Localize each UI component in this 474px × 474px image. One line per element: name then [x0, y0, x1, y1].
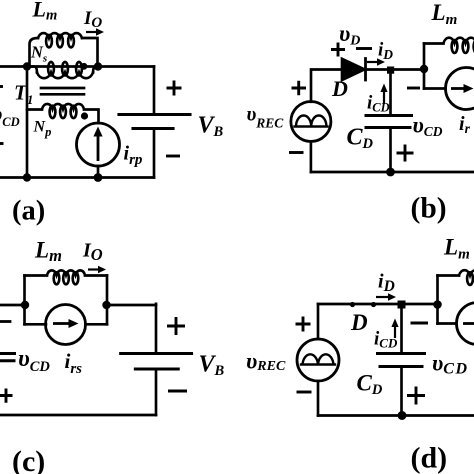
svg-text:D: D	[350, 310, 368, 335]
wire top rail a	[0, 65, 154, 68]
top rail d	[318, 303, 438, 306]
capacitor CD (d) top lead	[400, 305, 403, 354]
minus vREC (d)	[297, 391, 312, 394]
polarity dot Ns (a)	[81, 63, 88, 70]
minus vD (b)	[356, 47, 372, 50]
node dot c2	[102, 301, 110, 309]
current source circle (d)	[457, 303, 474, 345]
arrow iD (d)	[376, 296, 389, 298]
bottom rail b	[311, 171, 474, 174]
battery VB (a) bottom plate	[133, 127, 173, 130]
plus vREC (b)	[292, 81, 307, 96]
capacitor CD (d) bottom lead	[400, 367, 403, 416]
node square dot d3	[398, 301, 406, 309]
battery VB (c) bottom terminal	[155, 369, 158, 415]
plus cropped left (a)	[0, 85, 3, 88]
wire node vertical (b)	[423, 44, 426, 89]
rectified waveform inside vREC (b)	[295, 115, 328, 126]
source vREC circle (d)	[297, 339, 339, 381]
node vertical (d)	[436, 276, 439, 324]
capacitor CD (b) bottom plate	[366, 126, 410, 129]
transformer core T1	[41, 87, 84, 90]
plus cropped left (c)	[0, 389, 13, 403]
arrow in source (a)	[97, 134, 100, 161]
diode terminal dot d2	[371, 302, 376, 307]
inductor Lm loop (a)	[30, 38, 39, 67]
inductor Lm (c)	[25, 274, 48, 277]
arrow in source (c)	[53, 322, 69, 325]
svg-text:(c): (c)	[12, 445, 45, 474]
wire top left vertical b	[311, 70, 342, 102]
minus cap top (b)	[407, 87, 420, 90]
capacitor CD (b) top lead	[389, 70, 392, 116]
rectified waveform inside vREC (d)	[301, 354, 335, 364]
capacitor plates cropped left edge (c)	[0, 352, 15, 355]
capacitor CD (d) bottom plate	[380, 365, 422, 368]
inductor Lm branch (b)	[424, 42, 444, 45]
minus cap top (d)	[411, 322, 429, 325]
left vertical d	[317, 304, 320, 339]
winding Ns (a)	[27, 67, 37, 73]
wire vREC to bottom rail (d)	[317, 381, 320, 416]
battery VB (c) top terminal	[155, 304, 158, 354]
wire left vertical a	[26, 67, 29, 178]
arrow iCD (d)	[394, 325, 396, 338]
plus VB (a)	[167, 81, 182, 96]
polarity dot Np (a)	[81, 112, 88, 119]
current source circle (b)	[446, 68, 474, 110]
node dot d4	[433, 300, 442, 309]
arrow iCD (b)	[383, 90, 385, 104]
arrow iD (b)	[367, 61, 378, 63]
plus cap bottom (b)	[397, 145, 414, 162]
node dot a1	[23, 62, 31, 70]
bottom rail d	[318, 414, 474, 417]
battery VB (a) top plate	[119, 113, 190, 116]
inductor Lm branch (d)	[438, 274, 460, 277]
plus vREC (d)	[296, 317, 311, 332]
minus cropped left (a)	[0, 142, 4, 145]
svg-text:(b): (b)	[411, 193, 447, 225]
loop left vertical c	[23, 276, 26, 325]
wire vREC to bottom rail (b)	[310, 142, 313, 173]
current source i_rp circle (a)	[77, 123, 120, 166]
main rail c left segment	[0, 304, 25, 307]
minus VB (a)	[166, 155, 180, 158]
arrow IO (a)	[86, 31, 98, 33]
node dot c1	[21, 301, 29, 309]
diode terminal dot d1	[350, 302, 355, 307]
capacitor CD (b) bottom lead	[389, 128, 392, 173]
plus VB (c)	[167, 317, 185, 335]
node dot a2	[94, 62, 102, 70]
minus VB (c)	[168, 390, 187, 393]
diode D (b)	[342, 59, 365, 80]
node dot b3	[386, 168, 395, 177]
arrow in source (d)	[463, 322, 474, 325]
svg-text:(a): (a)	[12, 196, 45, 227]
arrow in source (b)	[451, 87, 465, 90]
node dot a3	[23, 173, 31, 181]
node square dot b1	[387, 67, 394, 74]
wire bottom rail a	[0, 176, 154, 179]
current source branch wires (c)	[25, 323, 108, 326]
arrow IO (c)	[88, 268, 100, 270]
current source i_rs circle (c)	[46, 305, 86, 345]
capacitor CD (b) top plate	[366, 114, 412, 117]
battery VB (a) top terminal	[153, 67, 156, 115]
plus cap bottom (d)	[407, 387, 425, 405]
battery VB (c) top plate	[121, 352, 192, 355]
wire diode to node (b)	[366, 68, 425, 71]
bottom rail c	[0, 414, 156, 417]
battery VB (c) bottom plate	[135, 367, 178, 370]
wire source to bottom rail (a)	[97, 166, 100, 178]
minus cropped (c)	[0, 320, 10, 323]
capacitor CD (d) top plate	[378, 352, 425, 355]
node dot d5	[398, 411, 407, 420]
battery VB (a) bottom terminal	[153, 129, 156, 178]
svg-text:(d): (d)	[411, 442, 448, 474]
winding Np (a)	[27, 108, 42, 111]
current source branch (d)	[438, 322, 457, 325]
plus vD (b)	[331, 43, 345, 57]
main rail c right segment	[107, 304, 156, 307]
minus vREC (b)	[289, 151, 304, 154]
source vREC circle (b)	[291, 102, 331, 142]
current source branch (b)	[424, 87, 446, 90]
node dot a4	[94, 173, 103, 182]
svg-text:D: D	[331, 76, 348, 101]
node dot b2	[420, 65, 428, 73]
loop right vertical c	[106, 276, 109, 325]
